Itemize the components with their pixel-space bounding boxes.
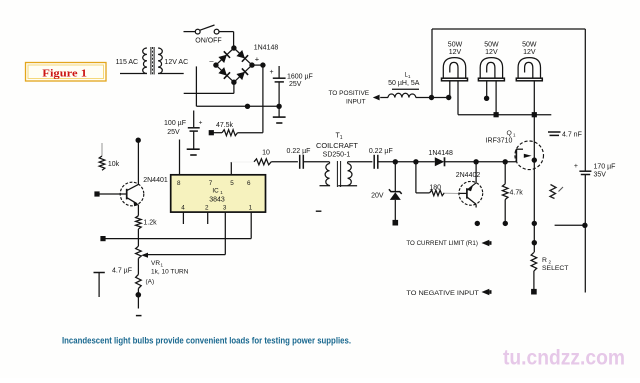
label 2N4401 — [143, 177, 168, 184]
svg-text:12V: 12V — [523, 49, 536, 56]
label R2 SELECT — [542, 257, 568, 272]
wire IC pin 4 stub — [182, 212, 184, 224]
lamp LP1 50W 12V — [442, 58, 468, 81]
wire y=106 with junctions — [196, 104, 281, 109]
svg-text:1N4148: 1N4148 — [428, 150, 453, 157]
zener diode 20V — [389, 162, 402, 226]
svg-text:7: 7 — [209, 180, 213, 187]
capacitor C3 0.22uF — [300, 155, 304, 169]
svg-text:2: 2 — [205, 205, 209, 212]
lamp LP3 50W 12V — [516, 58, 542, 81]
svg-text:1: 1 — [249, 205, 253, 212]
svg-text:47.5k: 47.5k — [216, 122, 234, 129]
svg-text:100 µF: 100 µF — [164, 120, 186, 127]
op-amp/controller IC1 3843 — [171, 175, 266, 212]
watermark tu.cndzz.com — [503, 347, 625, 370]
wire y=93 — [184, 92, 234, 94]
label T1 COILCRAFT SD250-1 — [316, 133, 358, 159]
svg-text:180: 180 — [429, 185, 441, 192]
svg-text:6: 6 — [247, 180, 251, 187]
transistor Q1 IRF3710 MOSFET — [515, 141, 544, 170]
resistor 4.7k — [502, 162, 508, 226]
wire to gate — [473, 159, 516, 164]
svg-text:3: 3 — [223, 205, 227, 212]
transformer T1 — [320, 161, 358, 187]
label 47.5k — [216, 122, 234, 129]
inductor L1 — [380, 89, 431, 97]
wire C3 to T1 — [303, 161, 329, 163]
capacitor 4.7nF — [548, 132, 561, 135]
svg-text:IC: IC — [212, 188, 219, 195]
wire C4 to node — [378, 159, 435, 164]
plus mark — [255, 55, 260, 64]
svg-text:2N4402: 2N4402 — [456, 172, 481, 179]
svg-text:10: 10 — [262, 150, 270, 157]
svg-text:2: 2 — [549, 260, 552, 265]
svg-text:4.7 µF: 4.7 µF — [112, 268, 132, 275]
label 1.2k — [143, 220, 157, 227]
wire secondary lead — [158, 73, 184, 75]
label 50W 12V (1) — [448, 42, 463, 57]
bridge rectifier D1 1N4148 — [213, 45, 255, 85]
wire faint to 10 ohm — [231, 161, 253, 163]
svg-text:50 µH, 5A: 50 µH, 5A — [388, 80, 420, 87]
svg-text:12V: 12V — [449, 49, 462, 56]
wire T1 to C4 — [348, 161, 373, 163]
svg-text:4: 4 — [181, 205, 185, 212]
wire IC pin 5 stub — [230, 162, 232, 175]
svg-text:12V AC: 12V AC — [164, 59, 188, 66]
label 20V — [371, 193, 384, 200]
svg-text:+: + — [269, 69, 273, 76]
potentiometer VR1 — [136, 246, 148, 288]
label 1600uF 25V — [287, 74, 313, 89]
svg-text:0.22 µF: 0.22 µF — [287, 148, 311, 155]
label 50W 12V (3) — [522, 42, 537, 57]
svg-text:115 AC: 115 AC — [116, 59, 138, 66]
svg-text:TO NEGATIVE INPUT: TO NEGATIVE INPUT — [406, 290, 479, 297]
label Q1 IRF3710 — [486, 130, 516, 145]
svg-text:+: + — [199, 120, 203, 127]
svg-text:R: R — [542, 257, 547, 264]
label 100uF 25V — [164, 120, 186, 136]
svg-text:0.22 µF: 0.22 µF — [369, 148, 393, 155]
wire IC pin 3 to VR1 wiper — [147, 212, 226, 255]
svg-text:COILCRAFT: COILCRAFT — [316, 141, 358, 150]
wire bridge bottom — [233, 82, 235, 93]
transistor Q3 2N4402 — [459, 162, 483, 208]
capacitor C2 100uF — [188, 111, 203, 149]
svg-text:SD250-1: SD250-1 — [323, 152, 351, 159]
svg-text:25V: 25V — [289, 81, 302, 88]
wire LP1 left leg — [449, 81, 451, 97]
svg-text:4.7k: 4.7k — [510, 190, 524, 197]
wire Q1 drain-source — [532, 115, 537, 253]
resistor 10 — [254, 159, 271, 165]
label 4.7k — [510, 190, 524, 197]
wire left frame — [431, 29, 433, 98]
wire to C3 — [271, 161, 298, 163]
svg-text:20V: 20V — [371, 193, 384, 200]
wire IC pin 2 stub — [207, 212, 209, 224]
switch S1 ON/OFF — [184, 25, 234, 45]
svg-text:ON/OFF: ON/OFF — [195, 38, 221, 45]
diode D3 1N4148 — [435, 157, 476, 166]
capacitor C1 1600uF — [269, 66, 285, 106]
wire to right frame — [555, 223, 588, 228]
svg-text:2N4401: 2N4401 — [143, 177, 168, 184]
label 115 AC — [116, 59, 138, 66]
svg-text:INPUT: INPUT — [346, 98, 366, 105]
svg-text:1k, 10 TURN: 1k, 10 TURN — [151, 269, 189, 276]
label 0.22uF left — [287, 148, 311, 155]
wire IC pin 1 to node — [100, 212, 251, 241]
svg-text:+: + — [255, 55, 260, 64]
arrow negative input — [482, 289, 492, 296]
svg-text:(A): (A) — [146, 279, 155, 286]
resistor 180 — [416, 162, 459, 196]
label VR1 1k 10 TURN — [151, 260, 189, 276]
minus mark — [209, 57, 214, 66]
wire x=196 vertical — [195, 66, 197, 106]
svg-text:+: + — [574, 163, 578, 170]
wire LP2 right leg — [495, 81, 497, 115]
wire lamp bus — [458, 112, 551, 117]
label 2N4402 — [456, 172, 481, 179]
label 10k — [108, 161, 120, 168]
label 1N4148 (bridge) — [254, 45, 279, 52]
svg-text:10k: 10k — [108, 161, 120, 168]
svg-text:tu.cndzz.com: tu.cndzz.com — [503, 347, 625, 370]
wire top frame — [432, 28, 585, 30]
svg-text:1: 1 — [161, 263, 164, 268]
svg-text:Incandescent light bulbs provi: Incandescent light bulbs provide conveni… — [62, 336, 351, 346]
svg-text:25V: 25V — [167, 129, 180, 136]
label 12V AC — [164, 59, 188, 66]
capacitor C5 170uF — [574, 163, 591, 175]
capacitor 4.7uF — [94, 273, 105, 298]
svg-text:50W: 50W — [522, 42, 537, 49]
svg-text:1600 µF: 1600 µF — [287, 74, 313, 81]
label TO CURRENT LIMIT — [406, 240, 478, 247]
label 180 — [429, 185, 441, 192]
label 10 — [262, 150, 270, 157]
svg-text:Figure 1: Figure 1 — [42, 68, 87, 80]
ground (C2) — [187, 149, 200, 155]
caption — [62, 336, 351, 346]
wire node down to 47.5k — [262, 65, 264, 133]
wire Q2 collector — [136, 138, 141, 185]
node inductor junction — [429, 95, 452, 100]
svg-text:Q: Q — [507, 130, 512, 137]
label 0.22uF right — [369, 148, 393, 155]
svg-text:IRF3710: IRF3710 — [486, 138, 513, 145]
resistor 47.5k — [209, 130, 263, 136]
wire right frame — [584, 29, 586, 293]
lamp LP2 50W 12V — [478, 58, 504, 81]
wire primary lead — [120, 73, 147, 75]
svg-text:1: 1 — [408, 74, 411, 79]
transistor Q2 2N4401 — [94, 182, 143, 216]
arrow to positive input — [373, 95, 380, 101]
svg-text:SELECT: SELECT — [542, 265, 568, 272]
svg-text:1: 1 — [513, 133, 516, 138]
label TO NEGATIVE INPUT — [406, 290, 479, 297]
label 1N4148 (diode) — [428, 150, 453, 157]
wire LP1 right leg — [457, 81, 459, 115]
svg-text:12V: 12V — [485, 49, 498, 56]
svg-text:3843: 3843 — [209, 197, 225, 204]
IC1 pin numbers and value — [177, 180, 253, 212]
svg-text:35V: 35V — [594, 172, 607, 179]
ground (C1) — [273, 106, 286, 123]
resistor 1.2k — [136, 216, 142, 247]
svg-text:TO CURRENT LIMIT (R1): TO CURRENT LIMIT (R1) — [406, 240, 478, 247]
svg-text:170 µF: 170 µF — [594, 164, 616, 171]
svg-text:5: 5 — [230, 180, 234, 187]
label 50W 12V (2) — [484, 42, 499, 57]
wire LP2 left leg — [484, 81, 489, 101]
svg-text:1N4148: 1N4148 — [254, 45, 279, 52]
wire IC pin 8 stub — [179, 140, 181, 175]
wire switch to bridge top — [233, 32, 235, 47]
wire bridge + to node — [252, 62, 266, 67]
svg-text:1.2k: 1.2k — [143, 220, 157, 227]
node Q3 collector dot — [475, 221, 480, 226]
svg-text:TO POSITIVE: TO POSITIVE — [328, 90, 369, 97]
label L1 50uH 5A — [388, 73, 420, 88]
svg-text:VR: VR — [151, 260, 160, 267]
svg-text:50W: 50W — [448, 42, 463, 49]
label (A) — [146, 279, 155, 286]
resistor 10k — [99, 143, 105, 170]
label TO POSITIVE INPUT — [328, 90, 369, 105]
capacitor C4 0.22uF — [374, 155, 378, 169]
ground (VR1) — [136, 289, 142, 316]
svg-text:50W: 50W — [484, 42, 499, 49]
svg-text:4.7 nF: 4.7 nF — [562, 132, 582, 139]
svg-text:8: 8 — [177, 180, 181, 187]
label 4.7nF — [562, 132, 582, 139]
label 4.7uF — [112, 268, 132, 275]
figure label box — [26, 63, 107, 82]
transformer T2 115AC/12VAC — [143, 47, 163, 75]
ground dash (T1) — [316, 210, 322, 212]
resistor R2 — [531, 252, 537, 294]
squiggle mark — [550, 185, 563, 199]
label 170uF 35V — [594, 164, 616, 179]
arrow current limit — [482, 240, 492, 247]
wire LP3 right leg — [533, 81, 535, 115]
